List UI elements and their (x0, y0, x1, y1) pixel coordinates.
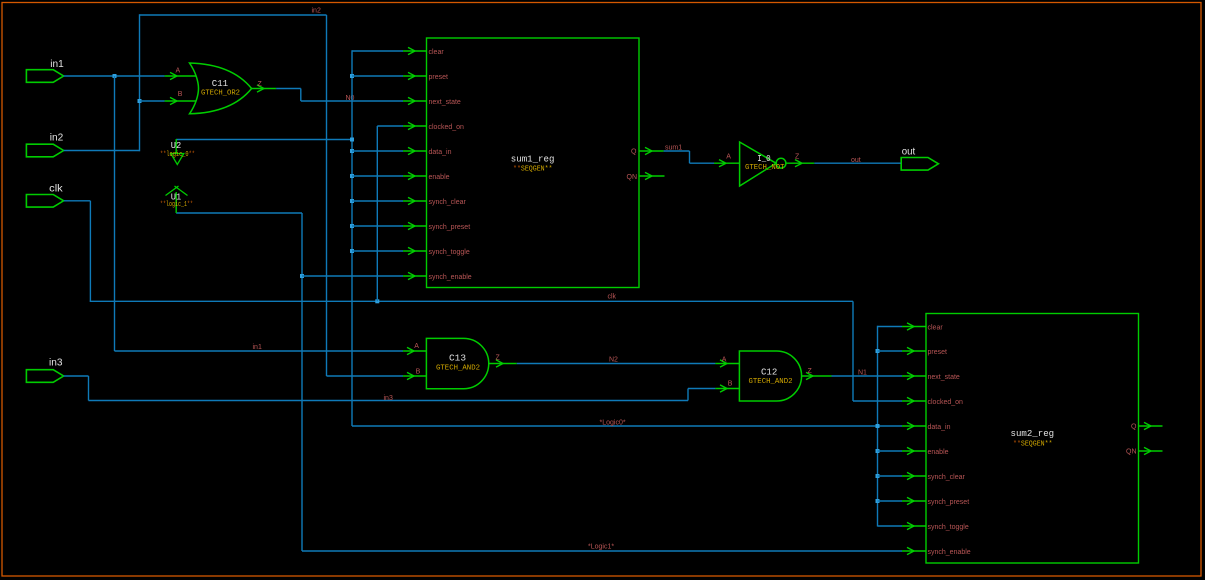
label **logic_1** (160, 201, 193, 209)
and-gate C12 GTECH_AND2 body (739, 351, 801, 401)
wire logic0 to sum1 synch_toggle (352, 250, 403, 252)
pin label sum2_reg next_state (928, 374, 960, 381)
input port in1 (26, 59, 64, 82)
svg-text:I_0: I_0 (757, 153, 771, 164)
svg-text:in2: in2 (312, 8, 321, 15)
wire net logic0 rail x=877.5 at sum2 (877, 326, 879, 527)
and-gate C13 GTECH_AND2 body (426, 338, 488, 388)
pin stub sum2_reg clear (902, 323, 926, 330)
pin stub sum1_reg synch_clear (403, 197, 427, 204)
pin stub C13.B (403, 372, 427, 379)
wire logic0 to sum1 enable (352, 175, 403, 177)
wire logic0 to sum1 clear (352, 50, 403, 52)
wire net logic0 long horizontal to sum2 (Logic0) (352, 425, 902, 427)
svg-text:Z: Z (795, 154, 800, 161)
unconnected QN stub of sum1_reg (639, 172, 665, 179)
svg-text:synch_enable: synch_enable (429, 274, 472, 281)
junction net in2 at (139.5,101) (138, 99, 142, 103)
wire net in2 top horizontal y=15 (140, 14, 327, 16)
junction logic0 at sum1 synch_preset (350, 224, 354, 228)
net label N0 (346, 95, 355, 102)
pin stub sum2_reg next_state (902, 372, 926, 379)
wire net in2 from port in2 (64, 150, 140, 152)
pin label sum1_reg synch_clear (429, 199, 467, 206)
wire net N2 output segment of C13 (489, 360, 517, 367)
svg-text:Z: Z (496, 355, 501, 362)
svg-text:synch_enable: synch_enable (928, 549, 971, 556)
label U1 (171, 192, 182, 203)
pin stub sum1_reg synch_enable (403, 272, 427, 279)
wire logic0 to sum2 synch_clear (878, 475, 903, 477)
pin stub sum2_reg synch_clear (902, 472, 926, 479)
net label N1 (858, 370, 867, 377)
wire net N0 horizontal (276, 88, 301, 90)
junction logic0 at sum2 synch_clear (876, 474, 880, 478)
wire logic0 to sum1 preset (352, 75, 403, 77)
svg-text:Z: Z (808, 368, 813, 375)
svg-text:synch_preset: synch_preset (429, 224, 471, 231)
pin label sum1_reg Q (631, 149, 637, 156)
junction logic0 at sum1 enable (350, 174, 354, 178)
label GTECH_NOT (745, 164, 785, 172)
svg-text:preset: preset (429, 74, 449, 81)
junction logic1 at sum1 synch_enable branch (300, 274, 304, 278)
wire logic0 to sum1 data_in (352, 150, 403, 152)
pin stub sum1_reg data_in (403, 147, 427, 154)
svg-text:N1: N1 (858, 370, 867, 377)
junction net clk at (377.3,301.3) (375, 299, 379, 303)
svg-text:synch_clear: synch_clear (928, 474, 966, 481)
pin label sum2_reg QN (1126, 449, 1137, 456)
wire logic0 to sum2 enable (878, 450, 903, 452)
pin label sum1_reg enable (429, 174, 450, 181)
wire net logic0 from U2 (176, 139, 352, 141)
pin label sum1_reg synch_enable (429, 274, 472, 281)
pin label C11.A (176, 67, 181, 74)
wire net N1 output segment of C12 (802, 372, 832, 379)
junction logic0 rail at U2 feed (350, 138, 354, 142)
wire net in2 vertical drop x=326.5 (326, 15, 328, 376)
pin label sum2_reg clocked_on (928, 399, 964, 406)
label GTECH_OR2 (201, 90, 240, 98)
svg-text:clocked_on: clocked_on (928, 399, 964, 406)
label **SEQGEN** of sum1_reg (513, 166, 553, 174)
wire net clk stub to sum1 clocked_on (377, 125, 403, 127)
pin stub C13.A (403, 347, 427, 354)
pin stub C11.B (165, 97, 196, 104)
net label N2 (609, 356, 618, 363)
svg-text:N0: N0 (346, 95, 355, 102)
pin stub sum2_reg data_in (902, 422, 926, 429)
wire net in3 horizontal y=400.5 (89, 400, 689, 402)
pin stub sum1_reg enable (403, 172, 427, 179)
net label *Logic0* (600, 420, 626, 427)
wire net in1 horizontal from port in1 to C11.A (64, 75, 165, 77)
pin label I_0.Z (795, 154, 800, 161)
wire net in3 to C12.B (688, 388, 715, 390)
svg-text:GTECH_AND2: GTECH_AND2 (436, 364, 480, 372)
wire net logic1 vertical x=302 (301, 213, 303, 551)
pin label C11.B (178, 91, 183, 98)
label sum1_reg (511, 154, 555, 165)
pin label sum2_reg synch_enable (928, 549, 971, 556)
wire net out from I_0.Z (786, 160, 815, 167)
wire net N0 output segment of C11 (252, 88, 277, 90)
svg-text:C12: C12 (761, 367, 778, 378)
net label in1 (253, 344, 262, 351)
svg-text:**SEQGEN**: **SEQGEN** (513, 166, 553, 174)
wire net sum1 Q stub of sum1_reg (639, 147, 664, 154)
pin label sum1_reg clear (429, 49, 445, 56)
inverter I_0 GTECH_NOT body (740, 142, 786, 186)
svg-text:in3: in3 (384, 395, 393, 402)
wire logic0 to sum2 clear (878, 326, 903, 328)
pin label sum2_reg synch_toggle (928, 524, 969, 531)
net label sum1 (665, 145, 682, 152)
pin label C11.Z (258, 81, 263, 88)
svg-text:U2: U2 (171, 140, 182, 151)
wire logic0 to sum1 synch_preset (352, 225, 403, 227)
pin stub sum1_reg synch_preset (403, 222, 427, 229)
label GTECH_AND2 of C12 (749, 378, 793, 386)
svg-text:in2: in2 (50, 133, 64, 144)
wire net out horizontal to port out (814, 162, 900, 164)
pin label C12.B (728, 380, 733, 387)
wire net clk vertical x=90.4 (89, 201, 91, 301)
pin label C13.A (414, 343, 419, 350)
pin stub sum2_reg enable (902, 447, 926, 454)
wire net in3 step up x=688 (687, 389, 689, 401)
svg-text:Q: Q (631, 149, 637, 156)
svg-text:**logic_1**: **logic_1** (160, 201, 193, 209)
pin stub C12.A (715, 360, 739, 367)
svg-text:*Logic1*: *Logic1* (588, 544, 614, 551)
svg-text:clear: clear (928, 324, 944, 331)
pin stub I_0.A (714, 160, 740, 167)
svg-text:**logic_0**: **logic_0** (160, 151, 195, 159)
wire net in3 vertical x=88.5 (88, 376, 90, 401)
unconnected QN stub of sum2_reg (1139, 447, 1163, 454)
svg-text:clear: clear (429, 49, 445, 56)
pin label sum2_reg synch_preset (928, 499, 970, 506)
svg-text:QN: QN (1126, 449, 1137, 456)
junction logic0 at sum1 synch_clear (350, 199, 354, 203)
net label clk (608, 294, 617, 301)
wire logic0 to sum2 synch_preset (878, 500, 903, 502)
input port in3 (26, 358, 63, 383)
input port in2 (26, 133, 63, 157)
pin label sum1_reg synch_preset (429, 224, 471, 231)
svg-text:clocked_on: clocked_on (429, 124, 465, 131)
svg-text:synch_toggle: synch_toggle (928, 524, 969, 531)
wire net logic1 from U1 (176, 212, 302, 214)
svg-text:data_in: data_in (429, 149, 452, 156)
svg-text:Z: Z (258, 81, 263, 88)
logic_1 cell U1 symbol stem and chevron (166, 186, 188, 213)
svg-text:clk: clk (49, 184, 64, 195)
svg-text:B: B (728, 380, 733, 387)
pin stub sum1_reg next_state (403, 97, 427, 104)
junction logic0 at sum1 preset (350, 74, 354, 78)
net label in2 (312, 8, 321, 15)
wire net logic0 rail A x=352 (351, 50, 353, 426)
svg-text:GTECH_AND2: GTECH_AND2 (749, 378, 793, 386)
pin label sum1_reg QN (627, 174, 638, 181)
svg-text:in1: in1 (253, 344, 262, 351)
svg-text:A: A (726, 154, 731, 161)
pin stub C12.B (715, 385, 739, 392)
pin label sum1_reg synch_toggle (429, 249, 470, 256)
label **logic_0** (160, 151, 195, 159)
svg-text:sum2_reg: sum2_reg (1011, 428, 1055, 439)
pin stub sum1_reg preset (403, 72, 427, 79)
wire net in3 from port in3 (64, 375, 89, 377)
label GTECH_AND2 of C13 (436, 364, 480, 372)
wire net N2 horizontal to C12.A (517, 363, 716, 365)
pin label sum1_reg preset (429, 74, 449, 81)
pin label sum1_reg clocked_on (429, 124, 465, 131)
input port clk (26, 184, 63, 208)
svg-text:C11: C11 (212, 78, 229, 89)
svg-text:synch_preset: synch_preset (928, 499, 970, 506)
wire net in1 horizontal to C13.A (115, 350, 404, 352)
svg-text:N2: N2 (609, 356, 618, 363)
pin stub sum1_reg synch_toggle (403, 247, 427, 254)
svg-text:preset: preset (928, 349, 948, 356)
svg-text:QN: QN (627, 174, 638, 181)
pin stub C11.A (165, 72, 196, 79)
label I_0 (757, 153, 771, 164)
net label *Logic1* (588, 544, 614, 551)
svg-text:A: A (176, 67, 181, 74)
junction net in1 at (114.5,76) (113, 74, 117, 78)
label C13 (449, 353, 466, 364)
label U2 (171, 140, 182, 151)
wire logic0 to sum1 synch_clear (352, 200, 403, 202)
svg-text:B: B (178, 91, 183, 98)
wire net in2 horizontal to C13.B (327, 375, 404, 377)
wire net in2 riser x=139.5 (139, 14, 141, 151)
svg-text:in1: in1 (50, 59, 64, 70)
junction logic0 at sum2 preset (876, 349, 880, 353)
register sum1_reg SEQGEN box (427, 38, 640, 288)
svg-text:clk: clk (608, 294, 617, 301)
svg-text:out: out (902, 147, 916, 158)
label sum2_reg (1011, 428, 1055, 439)
logic_0 cell U1 symbol (U2) stem and triangle (171, 139, 184, 165)
wire net in1 vertical drop x=114.5 (114, 76, 116, 351)
pin label sum2_reg preset (928, 349, 948, 356)
wire net clk main horizontal y=301.3 (90, 300, 853, 302)
svg-text:enable: enable (429, 174, 450, 181)
pin label sum2_reg data_in (928, 424, 951, 431)
wire logic0 to sum2 preset (878, 350, 903, 352)
svg-text:enable: enable (928, 449, 949, 456)
label C11 (212, 78, 229, 89)
svg-text:Q: Q (1131, 424, 1137, 431)
svg-text:GTECH_NOT: GTECH_NOT (745, 164, 785, 172)
pin label C12.A (722, 356, 727, 363)
pin stub sum2_reg clocked_on (902, 397, 926, 404)
svg-text:*Logic0*: *Logic0* (600, 420, 626, 427)
svg-text:data_in: data_in (928, 424, 951, 431)
pin label C12.Z (808, 368, 813, 375)
pin stub sum2_reg synch_preset (902, 497, 926, 504)
wire net N0 step down x=300.8 (300, 89, 302, 102)
svg-text:GTECH_OR2: GTECH_OR2 (201, 90, 240, 98)
wire net sum1 step down (689, 151, 691, 163)
pin stub sum2_reg preset (902, 347, 926, 354)
svg-text:B: B (416, 368, 421, 375)
wire net sum1 to I_0.A (690, 162, 715, 164)
svg-text:out: out (851, 157, 861, 164)
svg-text:in3: in3 (49, 358, 63, 369)
wire net N0 to sum1 next_state (301, 100, 403, 102)
svg-text:next_state: next_state (928, 374, 960, 381)
output port out (901, 147, 938, 171)
junction logic0 at sum2 data_in (876, 424, 880, 428)
wire net clk stub to sum2 clocked_on (853, 400, 902, 402)
pin label sum1_reg next_state (429, 99, 461, 106)
or-gate C11 GTECH_OR2 body (190, 63, 252, 114)
svg-text:A: A (414, 343, 419, 350)
label C12 (761, 367, 778, 378)
unconnected Q stub of sum2_reg (1139, 422, 1163, 429)
svg-text:A: A (722, 356, 727, 363)
wire net clk vertical drop x=853 (852, 301, 854, 401)
pin label sum2_reg clear (928, 324, 944, 331)
pin label sum2_reg Q (1131, 424, 1137, 431)
wire logic0 to sum2 synch_toggle (878, 525, 903, 527)
arrow on C11 output (257, 85, 264, 92)
wire net logic1 long horizontal to sum2 (Logic1) (302, 550, 902, 552)
pin label I_0.A (726, 154, 731, 161)
pin label sum2_reg enable (928, 449, 949, 456)
net label out (851, 157, 861, 164)
wire logic1 to sum1 synch_enable (302, 275, 403, 277)
pin stub sum1_reg clear (403, 47, 427, 54)
junction logic0 at sum1 synch_toggle (350, 249, 354, 253)
net label in3 (384, 395, 393, 402)
pin stub sum2_reg synch_toggle (902, 522, 926, 529)
svg-text:next_state: next_state (429, 99, 461, 106)
wire net clk from port clk (64, 200, 91, 202)
svg-text:C13: C13 (449, 353, 466, 364)
pin label sum1_reg data_in (429, 149, 452, 156)
wire net in2 stub to C11.B (140, 100, 165, 102)
svg-text:synch_clear: synch_clear (429, 199, 467, 206)
register sum2_reg SEQGEN box (926, 314, 1139, 564)
label **SEQGEN** of sum2_reg (1013, 441, 1053, 449)
wire net clk riser to sum1 clocked_on (376, 126, 378, 301)
pin stub sum1_reg clocked_on (403, 122, 427, 129)
junction logic0 at sum2 synch_preset (876, 499, 880, 503)
svg-text:synch_toggle: synch_toggle (429, 249, 470, 256)
junction logic0 at sum2 enable (876, 449, 880, 453)
junction logic0 at sum1 data_in (350, 149, 354, 153)
pin label C13.Z (496, 355, 501, 362)
wire net N1 horizontal to sum2 next_state (832, 375, 903, 377)
wire net sum1 horizontal (664, 150, 690, 152)
pin stub sum2_reg synch_enable (902, 547, 926, 554)
pin label C13.B (416, 368, 421, 375)
svg-text:sum1_reg: sum1_reg (511, 154, 555, 165)
pin label sum2_reg synch_clear (928, 474, 966, 481)
svg-text:**SEQGEN**: **SEQGEN** (1013, 441, 1053, 449)
